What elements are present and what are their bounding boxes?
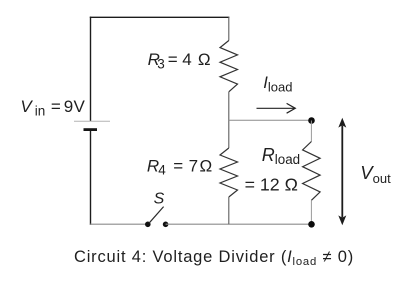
svg-text:7: 7: [189, 156, 198, 175]
wire bottom right (switch to Rload bottom): [166, 223, 312, 225]
resistor Rload zigzag: [303, 142, 321, 201]
wire Rload top stub: [310, 121, 312, 142]
svg-text:Ω: Ω: [200, 156, 213, 175]
svg-text:Circuit 4: Voltage Divider (Il: Circuit 4: Voltage Divider (Iload ≠ 0): [74, 248, 354, 268]
switch S left contact dot: [145, 222, 151, 228]
wire left upper (top to battery): [90, 17, 92, 121]
node dot top (Rload top): [308, 117, 315, 124]
svg-text:4: 4: [158, 163, 166, 178]
svg-text:Iload: Iload: [263, 74, 292, 95]
battery V1 short plate: [84, 128, 98, 131]
resistor R4 zigzag: [220, 148, 238, 197]
battery V1 long plate: [74, 120, 110, 122]
svg-text:S: S: [154, 190, 165, 207]
node dot bottom (Rload bottom): [308, 221, 315, 228]
wire R3 bottom to node junction: [228, 92, 230, 148]
svg-text:=: =: [51, 97, 61, 116]
wire left lower (battery to bottom rail): [90, 131, 92, 225]
svg-text:= 12 Ω: = 12 Ω: [245, 174, 298, 194]
svg-text:in: in: [35, 103, 46, 118]
svg-text:Vout: Vout: [360, 162, 391, 186]
svg-text:4: 4: [182, 50, 191, 69]
svg-text:Ω: Ω: [198, 50, 211, 69]
arrow Vout double-headed: [341, 126, 343, 218]
svg-text:V: V: [20, 97, 33, 116]
svg-text:=: =: [173, 156, 183, 175]
wire R3 top stub: [228, 17, 230, 41]
wire Rload bottom stub: [310, 200, 312, 224]
switch S blade: [149, 207, 164, 224]
svg-text:9: 9: [64, 97, 73, 116]
wire R4 bottom stub: [228, 197, 230, 224]
svg-text:=: =: [168, 50, 178, 69]
svg-text:V: V: [74, 97, 86, 116]
wire top (Vin+ to R3 top): [90, 16, 230, 18]
svg-text:Rload: Rload: [262, 145, 300, 167]
svg-text:3: 3: [157, 56, 165, 71]
switch S right contact dot: [163, 222, 169, 228]
wire mid horizontal (junction to Rload node): [229, 119, 312, 121]
resistor R3 zigzag: [220, 41, 238, 92]
wire bottom left (to switch): [90, 223, 148, 225]
arrow Iload: [257, 107, 295, 109]
